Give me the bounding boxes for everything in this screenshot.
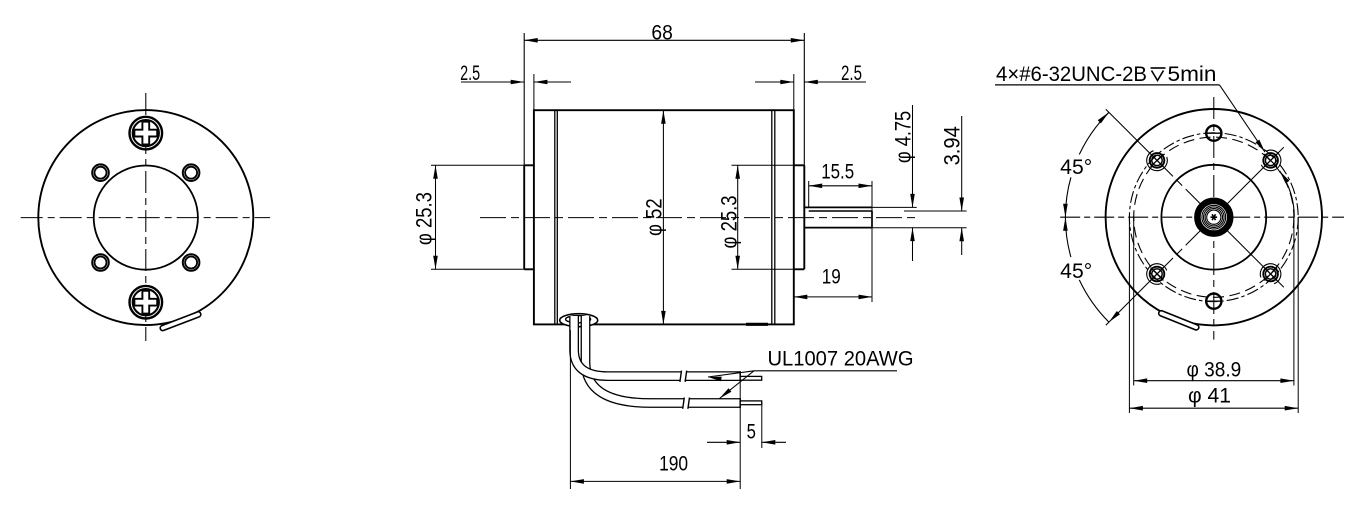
label thread callout leader arrow xyxy=(1256,140,1266,153)
label UL1007 underline shelf xyxy=(754,370,897,372)
svg-text:5min: 5min xyxy=(1168,63,1217,86)
right view tapped hole top-right outer circle xyxy=(1263,153,1278,168)
dim dia4.75 line lower xyxy=(912,228,914,261)
dim 5 right arrow xyxy=(762,440,776,445)
left view top screw outer circle xyxy=(130,117,163,150)
wire W2 break gap xyxy=(683,396,690,410)
dim dia38.9 right arrow xyxy=(1280,378,1294,383)
dim dia38.9 ext left xyxy=(1133,217,1135,385)
svg-text:68: 68 xyxy=(651,22,672,45)
dim dia4.75 upper arrow xyxy=(910,194,915,208)
dim 15.5 line xyxy=(809,185,872,187)
right view tapped hole bottom-right cross xyxy=(1264,268,1277,281)
dim 5 line left xyxy=(707,441,740,443)
dim 190 left arrow xyxy=(570,479,584,484)
svg-text:19: 19 xyxy=(822,265,841,288)
grommet inner ellipse xyxy=(566,316,591,323)
wire W2 break cap left xyxy=(683,398,685,409)
middle view right seam line b xyxy=(774,110,776,324)
middle view left seam line a xyxy=(554,110,556,324)
dim 190 ext right xyxy=(739,381,741,489)
dim 45 lower arc arrow b xyxy=(1109,311,1120,322)
left view mounting hole 4 outer ring xyxy=(183,254,200,271)
right view vertical centerline xyxy=(1213,97,1215,340)
svg-text:3.94: 3.94 xyxy=(940,126,965,165)
dim 3.94 lower arrow xyxy=(959,228,964,242)
dim dia38.9 ext right xyxy=(1293,217,1295,385)
label UL1007 leader W2 arrow xyxy=(720,388,732,398)
left view inner circle (rear boss dia 25.3) xyxy=(94,166,198,270)
svg-text:UL1007 20AWG: UL1007 20AWG xyxy=(768,348,914,371)
label thread callout underline shelf xyxy=(995,84,1220,86)
bolt circle locating arc xyxy=(1280,171,1295,217)
dim 5 ext right xyxy=(761,402,763,448)
dim 3.94 upper arrow xyxy=(959,198,964,212)
dim 19 right arrow xyxy=(859,295,873,300)
dim dia41 ext left xyxy=(1128,217,1130,413)
extension line body left face above xyxy=(533,74,535,110)
shaft flat edge line xyxy=(809,210,872,212)
dim 2.5 left arrow b xyxy=(534,80,548,85)
dim dia41 right arrow xyxy=(1285,406,1299,411)
svg-text:φ 25.3: φ 25.3 xyxy=(717,196,742,249)
right view tapped hole top-left outer circle xyxy=(1150,153,1165,168)
wire W1 break cap right xyxy=(685,371,687,382)
dim dia25.3 left extension bottom xyxy=(431,268,524,270)
right view tapped hole bottom-right thread arc xyxy=(1260,264,1281,284)
middle view left boss face xyxy=(523,165,525,269)
dim 3.94 line lower xyxy=(961,228,963,255)
dim dia52 bottom arrow xyxy=(661,311,666,325)
left view bottom screw inner circle xyxy=(133,289,159,315)
right view inner circle (front boss) xyxy=(1161,165,1266,270)
dim 19 left arrow xyxy=(794,295,808,300)
right view diagonal centerline 135-315 xyxy=(1106,109,1284,287)
middle view right seam line a xyxy=(771,110,773,324)
right view tapped hole bottom-right outer circle xyxy=(1263,267,1278,282)
right view tapped hole top-right cross xyxy=(1264,154,1277,167)
left view mounting hole 2 outer ring xyxy=(183,164,200,181)
left view mounting hole 2 inner ring xyxy=(185,167,197,179)
dim 2.5 right line inner xyxy=(804,81,866,83)
dim 190 line xyxy=(570,480,740,482)
dim 19 line xyxy=(794,296,872,298)
wire W1 break gap xyxy=(680,369,687,383)
right view bottom hole horizontal tick xyxy=(1205,300,1222,302)
shaft bottom extension xyxy=(872,227,967,229)
dim 190 right arrow xyxy=(727,479,741,484)
label UL1007 leader to wire W2 xyxy=(720,371,755,399)
wire W2 break cap right xyxy=(688,398,690,409)
dim 15.5/19 shared ext xyxy=(871,181,873,302)
dim 2.5 right line outer xyxy=(755,81,794,83)
shaft tip edge xyxy=(871,211,873,228)
label thread callout leader xyxy=(1220,85,1266,152)
right view tapped hole bottom-left cross xyxy=(1151,268,1164,281)
middle view left boss 68 extension line xyxy=(523,33,525,165)
right view tapped hole bottom-left inner circle xyxy=(1152,269,1162,279)
right view bolt circle dia38.9 dashed xyxy=(1134,137,1294,297)
dim dia38.9 line xyxy=(1134,380,1294,382)
middle view left boss top edge xyxy=(524,164,534,166)
dim dia25.3 left line xyxy=(435,165,437,269)
dim 15.5 ext left xyxy=(808,181,810,208)
svg-text:5: 5 xyxy=(747,420,756,443)
right view tapped hole top-right inner circle xyxy=(1265,155,1275,165)
label UL1007 leader to wire W1 xyxy=(708,371,754,377)
dim 15.5 left arrow xyxy=(809,184,823,189)
left view vertical centerline xyxy=(145,93,147,341)
dim 68 left arrow xyxy=(524,38,538,43)
left view top screw inner circle xyxy=(133,120,159,146)
left view mounting hole 4 inner ring xyxy=(185,257,197,269)
right view tapped hole bottom-right inner circle xyxy=(1265,269,1275,279)
wire W1 break cap left xyxy=(680,371,682,382)
left view bottom screw outer circle xyxy=(130,286,163,319)
right view shaft ring r10.3 xyxy=(1204,207,1225,228)
right view bottom tab xyxy=(1161,313,1196,327)
right view outer circle (front flange) xyxy=(1106,109,1322,325)
dim 2.5 right arrow b xyxy=(804,80,818,85)
right view tapped hole top-left inner circle xyxy=(1152,155,1162,165)
dim 15.5 right arrow xyxy=(859,184,873,189)
right view bottom hole circle xyxy=(1206,294,1221,309)
right view shaft ring r11.9 xyxy=(1202,205,1226,229)
right view shaft center star xyxy=(1211,216,1218,218)
left view outer circle (motor housing rear) xyxy=(38,110,253,325)
dim dia52 top arrow xyxy=(661,110,666,124)
dim dia25.3 right top arrow xyxy=(735,165,740,179)
dim dia25.3 right bottom arrow xyxy=(735,256,740,269)
left view mounting hole 1 inner ring xyxy=(95,167,107,179)
shaft flat extension for 3.94 xyxy=(904,210,967,212)
middle view right boss top edge xyxy=(794,164,805,166)
shaft top edge xyxy=(804,206,872,208)
middle view motor body outline xyxy=(534,110,794,324)
dim 45 upper arc segment b xyxy=(1065,177,1071,217)
middle view right boss face xyxy=(803,165,805,269)
dim 19 ext left xyxy=(793,271,795,302)
right view tapped hole top-right thread arc xyxy=(1261,150,1281,171)
right view circle dia41 dash-dot xyxy=(1129,133,1298,302)
dim 2.5 left line outer xyxy=(461,81,524,83)
middle view right boss bottom edge xyxy=(794,268,805,270)
right view shaft ring r7.1 xyxy=(1207,210,1221,224)
left view horizontal centerline xyxy=(21,217,270,219)
dim 45 upper arc arrow a xyxy=(1098,112,1109,123)
right view tapped hole bottom-left thread arc xyxy=(1147,264,1167,285)
svg-text:190: 190 xyxy=(659,452,688,475)
middle view axis centerline xyxy=(480,217,918,219)
dim 2.5 left arrow a xyxy=(511,80,525,85)
shaft bottom edge xyxy=(804,227,872,229)
dim 3.94 line upper xyxy=(961,116,963,211)
dim 2.5 left line inner xyxy=(534,81,571,83)
middle view left seam line b xyxy=(556,110,558,324)
svg-text:φ 52: φ 52 xyxy=(642,198,667,236)
dim 5 line right xyxy=(762,441,786,443)
svg-text:φ 38.9: φ 38.9 xyxy=(1187,359,1242,382)
dim dia38.9 left arrow xyxy=(1134,378,1148,383)
dim dia52 line xyxy=(662,110,664,324)
shaft top extension for dia 4.75 xyxy=(872,206,917,208)
extension line body right face above xyxy=(793,74,795,110)
right view shaft boss annulus xyxy=(1197,201,1230,234)
right view top hole horizontal tick xyxy=(1205,132,1222,134)
wire W2 stripped end xyxy=(740,401,762,405)
left view top screw phillips cross xyxy=(134,122,157,145)
middle view left boss bottom edge xyxy=(524,268,534,270)
dim 190 ext left xyxy=(569,330,571,489)
dim 45 lower arc arrow a xyxy=(1063,217,1068,231)
left view mounting hole 3 inner ring xyxy=(95,257,107,269)
wire W1 stripped end xyxy=(740,376,762,380)
label UL1007 leader W1 arrow xyxy=(708,377,722,382)
dim dia41 ext right xyxy=(1297,217,1299,413)
right view tapped hole top-left cross xyxy=(1151,154,1164,167)
svg-text:4×#6-32UNC-2B: 4×#6-32UNC-2B xyxy=(996,63,1147,86)
dim dia25.3 left extension top xyxy=(431,164,524,166)
dim dia25.3 left bottom arrow xyxy=(433,256,438,269)
dim dia25.3 right extension top xyxy=(732,164,794,166)
right view tapped hole bottom-left outer circle xyxy=(1150,267,1165,282)
dim 68 line xyxy=(524,39,804,41)
dim dia4.75 lower arrow xyxy=(910,228,915,242)
dim dia41 left arrow xyxy=(1129,406,1143,411)
left view mounting hole 1 outer ring xyxy=(92,164,109,181)
middle view bottom weld segment xyxy=(746,323,768,326)
right view tapped hole top-left thread arc xyxy=(1147,151,1168,171)
dim dia25.3 right extension bottom xyxy=(732,268,794,270)
svg-text:45°: 45° xyxy=(1060,156,1092,179)
right view shaft ring r8.7 xyxy=(1205,209,1222,226)
dim dia4.75 line upper xyxy=(912,105,914,207)
label thread callout depth symbol xyxy=(1151,67,1166,69)
svg-text:φ 4.75: φ 4.75 xyxy=(891,111,916,163)
grommet outer ellipse xyxy=(560,314,598,327)
dim 2.5 right arrow a xyxy=(780,80,794,85)
wire W2 end cap xyxy=(739,398,741,408)
wire W1 end cap xyxy=(739,371,741,381)
middle view right boss 68 extension line xyxy=(803,33,805,165)
left view mounting hole 3 outer ring xyxy=(92,254,109,271)
wire W1 (upper lead) xyxy=(574,316,740,376)
wire W2 (lower lead) xyxy=(586,316,741,403)
right view diagonal centerline 225-45 xyxy=(1106,147,1284,325)
bolt circle locating arc arrow xyxy=(1280,171,1290,183)
svg-text:45°: 45° xyxy=(1060,260,1092,283)
dim 45 lower arc segment a xyxy=(1065,217,1071,257)
left view bottom screw phillips cross xyxy=(134,291,157,314)
svg-text:φ 25.3: φ 25.3 xyxy=(412,192,437,245)
left view bottom tab xyxy=(163,314,198,328)
dim dia25.3 right line xyxy=(737,165,739,269)
svg-text:15.5: 15.5 xyxy=(821,161,854,184)
dim 68 right arrow xyxy=(791,38,805,43)
svg-text:φ 41: φ 41 xyxy=(1188,385,1231,408)
dim dia41 line xyxy=(1129,407,1298,409)
dim dia25.3 left top arrow xyxy=(433,165,438,179)
dim 5 left arrow xyxy=(727,440,741,445)
dim 45 lower arc segment b xyxy=(1079,280,1109,322)
dim 45 upper arc arrow b xyxy=(1063,204,1068,218)
right view horizontal centerline xyxy=(1060,216,1344,218)
right view top hole circle xyxy=(1206,126,1221,141)
dim 45 upper arc segment a xyxy=(1079,112,1109,154)
